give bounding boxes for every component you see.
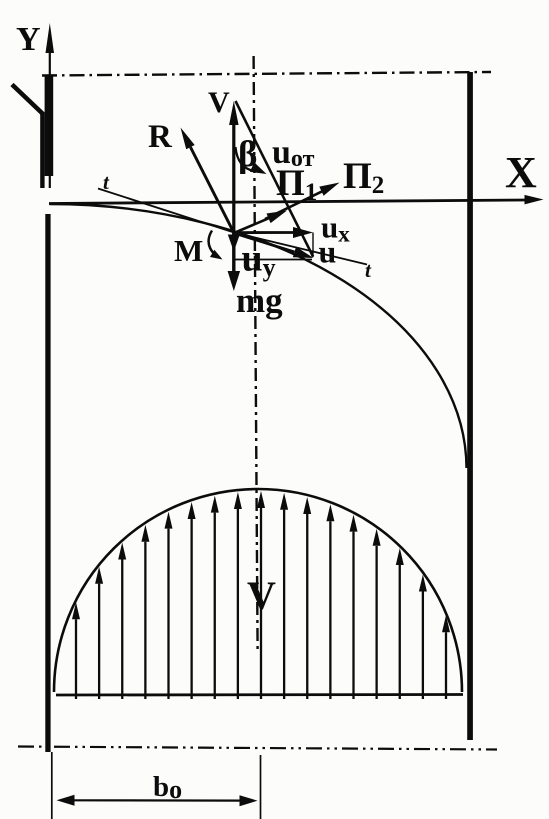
profile arrow 2 bbox=[98, 584, 100, 699]
svg-text:Y: Y bbox=[16, 21, 41, 58]
svg-text:bo: bo bbox=[153, 771, 182, 804]
right wall bbox=[467, 72, 473, 740]
svg-text:u: u bbox=[319, 234, 337, 270]
profile arrow 1 bbox=[75, 619, 77, 699]
profile dome curve bbox=[54, 489, 462, 692]
axis X bbox=[49, 200, 526, 204]
tangent line t bbox=[98, 189, 367, 265]
profile arrow 8 bbox=[237, 509, 239, 699]
svg-text:X: X bbox=[505, 148, 537, 197]
axis Y bbox=[49, 47, 51, 188]
vector R bbox=[190, 147, 234, 233]
u_ot construction line from V tip to u tip bbox=[236, 101, 314, 257]
dimension arrow b0 bbox=[68, 799, 245, 801]
component rectangle right side bbox=[312, 233, 314, 258]
vector Pi_1 bbox=[234, 218, 269, 233]
hatch stroke on left wall bbox=[12, 85, 43, 115]
vector Pi_2 bbox=[265, 191, 322, 219]
vector u_x bbox=[234, 231, 293, 234]
svg-text:β: β bbox=[238, 134, 258, 175]
extension line left bbox=[51, 752, 53, 819]
left wall lower bbox=[45, 214, 50, 752]
profile baseline bbox=[56, 693, 463, 696]
svg-text:V: V bbox=[208, 86, 230, 119]
vector u bbox=[234, 233, 294, 252]
profile arrow 3 bbox=[121, 559, 123, 699]
svg-text:R: R bbox=[148, 119, 173, 155]
profile arrow 4 bbox=[144, 542, 146, 699]
vector u_y bbox=[232, 233, 235, 235]
svg-text:M: M bbox=[174, 233, 203, 268]
dash-dot vertical centerline bbox=[254, 56, 258, 650]
component rectangle bottom side bbox=[235, 259, 313, 261]
profile arrow 6 bbox=[190, 519, 192, 699]
profile arrow 13 bbox=[352, 532, 354, 699]
profile arrow 12 bbox=[329, 521, 331, 699]
profile arrow 10 bbox=[283, 510, 285, 699]
dash-dot bottom boundary line bbox=[18, 747, 497, 750]
trajectory curve bbox=[50, 204, 467, 468]
rotation arc at M bbox=[209, 231, 216, 257]
profile arrow 11 bbox=[306, 514, 308, 699]
profile arrow 5 bbox=[167, 529, 169, 699]
left wall upper second bar bbox=[40, 112, 44, 188]
dash-dot top boundary line bbox=[42, 72, 491, 76]
profile arrow 17 bbox=[445, 632, 447, 699]
svg-text:V: V bbox=[247, 573, 276, 618]
profile arrow 15 bbox=[399, 565, 401, 699]
profile arrow 7 bbox=[214, 513, 216, 699]
left wall upper bar bbox=[45, 75, 54, 176]
profile arrow 16 bbox=[422, 591, 424, 699]
vector V bbox=[232, 125, 235, 233]
vector mg bbox=[232, 233, 235, 271]
extension line right bbox=[260, 755, 262, 819]
svg-text:mg: mg bbox=[236, 281, 283, 320]
profile arrow 14 bbox=[375, 546, 377, 699]
profile arrow 9 bbox=[260, 508, 262, 699]
angle beta arc bbox=[236, 147, 258, 172]
